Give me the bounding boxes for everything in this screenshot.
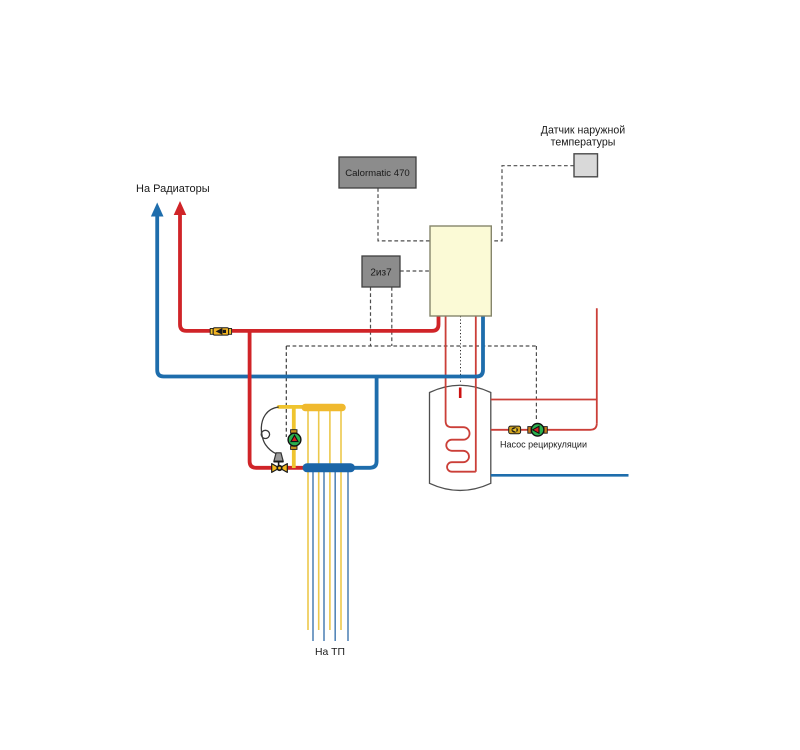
floor loop supply drop 3 (yellow) — [329, 411, 331, 630]
three-way mixing valve — [272, 464, 288, 473]
floor loop return drop 1 (blue) — [312, 467, 314, 641]
floor loop return drop 2 (blue) — [323, 467, 325, 641]
pipe sensor stub to supply manifold (yellow) — [279, 405, 303, 409]
pipe pump riser floor circuit (yellow) — [292, 407, 296, 468]
pipe supply branch to mixing valve (thick red) — [250, 331, 272, 468]
pipe cold water inlet (blue) — [491, 474, 629, 477]
pipe DHW riser to taps (thin red) — [596, 308, 598, 423]
svg-text:Насос рециркуляции: Насос рециркуляции — [500, 440, 587, 450]
floor loop return drop 4 (blue) — [347, 467, 349, 641]
control line 2из7 module to boiler (dashed) — [400, 270, 430, 272]
svg-text:На Радиаторы: На Радиаторы — [136, 183, 210, 195]
DHW storage tank — [430, 385, 491, 490]
pipe floor return riser (blue) — [352, 377, 377, 468]
svg-text:На ТП: На ТП — [315, 647, 345, 658]
check valve on supply main — [210, 328, 231, 335]
capillary tube of thermostatic head — [261, 407, 279, 454]
svg-text:Датчик наружной: Датчик наружной — [541, 125, 625, 137]
check valve on recirculation line — [509, 426, 521, 434]
pipe heating return main (thick blue) — [157, 215, 483, 377]
outdoor temperature sensor box — [574, 154, 598, 177]
capillary sensor bulb loop — [261, 430, 269, 438]
pipe recirculation line (thin red) — [491, 423, 597, 430]
supply manifold bar (yellow) — [302, 404, 346, 412]
pipe coil right back to boiler (thin red) — [475, 316, 477, 472]
arrowhead blue to radiators — [151, 203, 164, 217]
control line Calormatic 470 to boiler (dashed) — [378, 188, 430, 241]
control wire to recirculation pump (dashed) — [535, 346, 537, 422]
sensor wire boiler to tank sensor (dotted) — [460, 316, 462, 384]
2из7 module box — [362, 256, 400, 287]
return manifold bar (blue) — [303, 463, 356, 472]
control line outdoor sensor to boiler (dashed) — [491, 166, 574, 241]
arrowhead red to radiators — [174, 201, 187, 215]
floor loop supply drop 1 (yellow) — [307, 411, 309, 630]
svg-text:температуры: температуры — [551, 137, 616, 149]
Calormatic 470 controller box — [339, 157, 416, 188]
recirculation pump P2 — [528, 424, 548, 437]
pipe boiler to coil left (thin red) + heat exchanger coil — [446, 316, 476, 472]
control wire 2из7 right drop (dashed) — [391, 287, 393, 346]
control wire 2из7 left drop (dashed) — [370, 287, 372, 346]
floor heating pump P1 — [288, 430, 301, 450]
control bus horizontal (dashed) — [286, 345, 536, 347]
floor loop supply drop 2 (yellow) — [318, 411, 320, 630]
pipe DHW outlet tank to riser (thin red) — [491, 399, 597, 401]
boiler — [430, 226, 491, 316]
valve thermostatic actuator — [274, 453, 284, 466]
floor loop supply drop 4 (yellow) — [340, 411, 342, 630]
svg-text:2из7: 2из7 — [370, 268, 392, 279]
pipe heating supply main (thick red) — [180, 213, 439, 331]
svg-text:Calormatic 470: Calormatic 470 — [345, 168, 410, 179]
control wire to floor heating pump (dashed) — [285, 346, 287, 437]
pipe mixing valve to manifold (thick red) — [288, 466, 306, 470]
floor loop return drop 3 (blue) — [334, 467, 336, 641]
tank temperature sensor mark — [459, 388, 462, 399]
